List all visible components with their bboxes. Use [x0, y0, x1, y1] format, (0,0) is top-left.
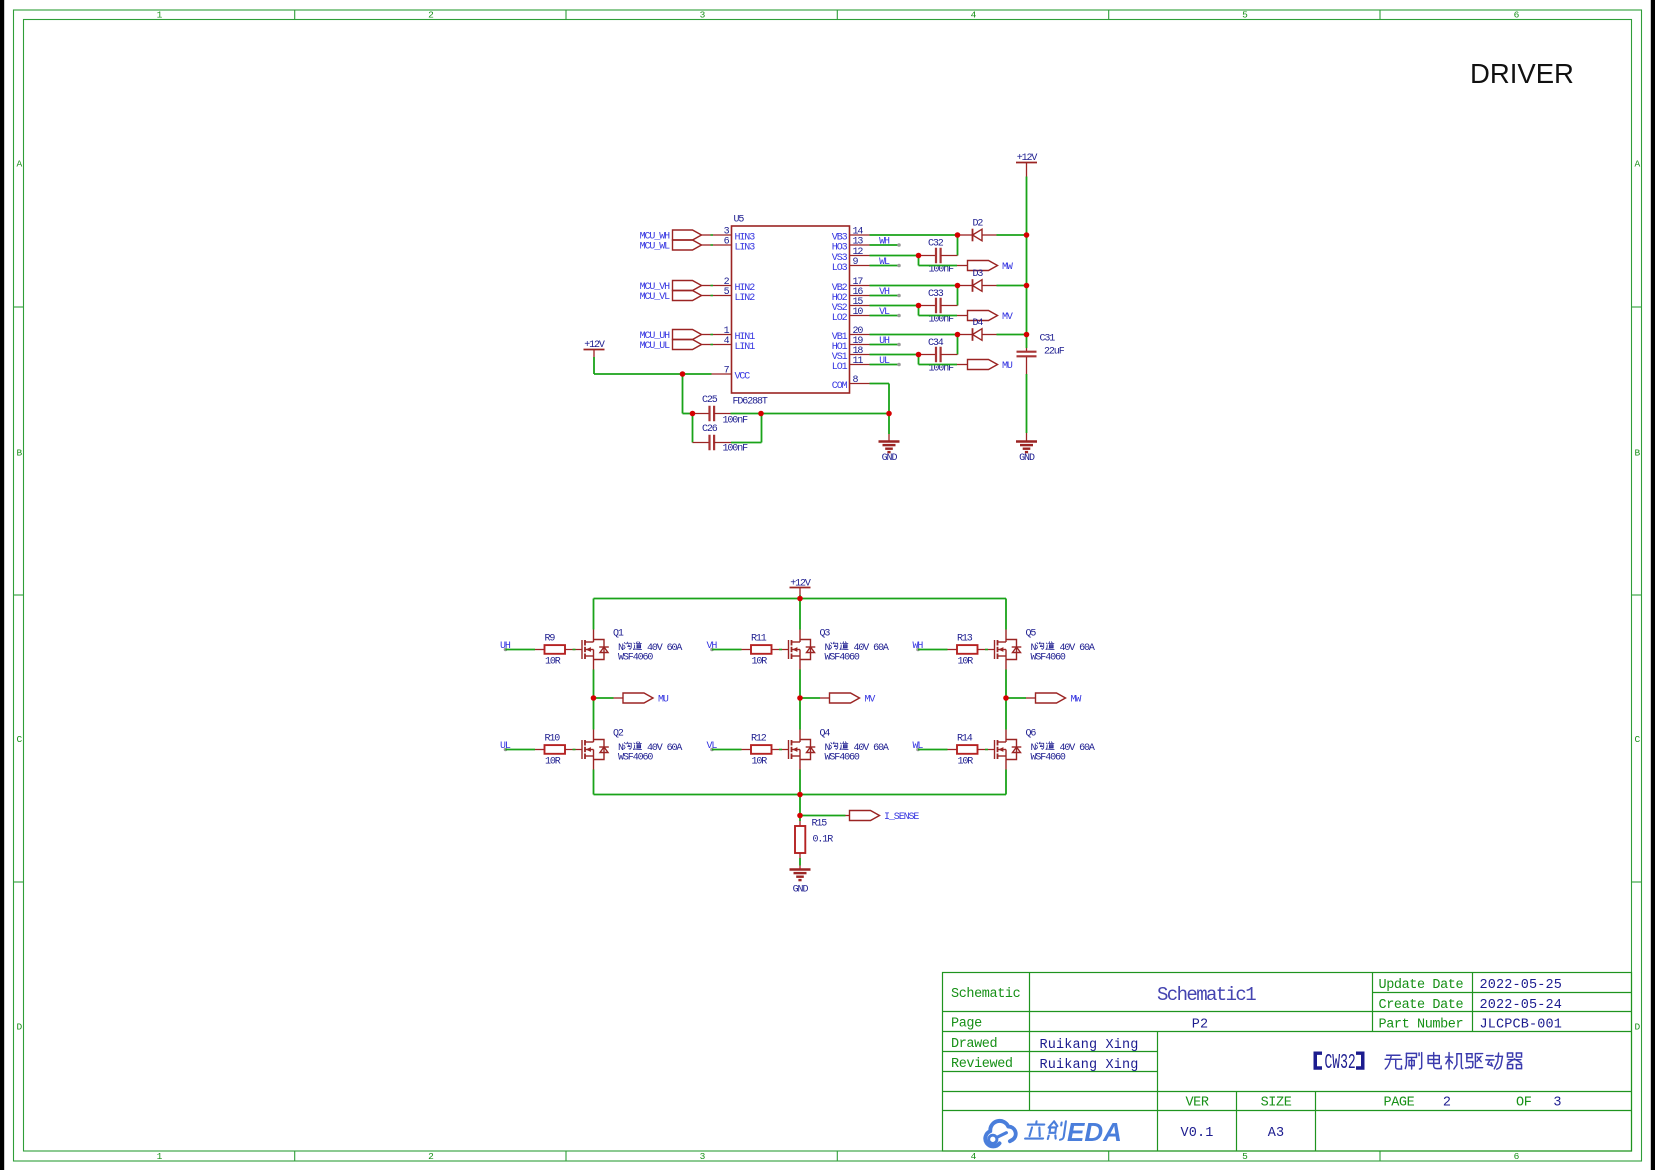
wire HO net UH — [870, 344, 900, 346]
output net flag MV — [957, 315, 968, 317]
svg-text:Drawed: Drawed — [951, 1037, 997, 1052]
wire to I_SENSE flag — [800, 815, 846, 817]
svg-text:Q4: Q4 — [820, 729, 831, 740]
wire bottom rail — [594, 794, 1007, 796]
wire top rail — [594, 598, 1007, 600]
svg-text:CW32: CW32 — [1325, 1051, 1356, 1075]
wire diode to +12V rail — [997, 234, 1027, 236]
svg-text:22uF: 22uF — [1044, 347, 1065, 358]
svg-text:R12: R12 — [751, 734, 767, 745]
wire COM down — [870, 383, 890, 385]
wire VS to output flag MU — [918, 355, 920, 365]
capacitor C31 22uF — [1026, 348, 1028, 351]
svg-text:WL: WL — [879, 257, 890, 268]
node junction dot — [758, 411, 764, 417]
wire Q1 source to mid node — [593, 670, 595, 699]
transistor Q6 WSF4060 — [995, 730, 1022, 770]
wire VS row to C33 — [870, 305, 919, 307]
svg-text:C26: C26 — [702, 424, 718, 435]
pin 5 LIN2 of U5 — [712, 295, 732, 297]
svg-text:10R: 10R — [958, 757, 974, 768]
wire UH to R9 — [506, 649, 536, 651]
pin 16 HO2 of U5 — [850, 295, 870, 297]
node junction dot — [1024, 283, 1030, 289]
pin 8 COM of U5 — [850, 383, 870, 385]
wire VB net row D2 — [870, 234, 958, 236]
svg-text:2: 2 — [1443, 1096, 1451, 1111]
wire Q6 source to bottom rail — [1005, 770, 1007, 795]
svg-text:LO1: LO1 — [832, 362, 848, 373]
capacitor C33 100nF — [919, 305, 937, 307]
wire UL to R10 — [506, 749, 536, 751]
svg-text:SIZE: SIZE — [1261, 1096, 1292, 1111]
svg-text:Create Date: Create Date — [1379, 998, 1464, 1013]
wire diode to +12V rail — [997, 285, 1027, 287]
input net flag MCU_VH — [673, 281, 702, 291]
pin 17 VB2 of U5 — [850, 285, 870, 287]
resistor R15 0.1R shunt — [799, 816, 801, 822]
logo LCEDA — [985, 1121, 1015, 1147]
node COM junction — [888, 414, 890, 435]
transistor Q5 WSF4060 — [995, 630, 1022, 670]
svg-text:P2: P2 — [1192, 1018, 1209, 1033]
node junction dot — [690, 411, 696, 417]
output net flag MU (phase) — [594, 697, 614, 699]
wire drain column Q1 — [593, 599, 595, 630]
svg-text:WH: WH — [879, 237, 890, 248]
svg-text:LIN1: LIN1 — [735, 342, 756, 353]
wire VH to R11 — [712, 649, 742, 651]
wire Q5 source to mid node — [1005, 670, 1007, 699]
pin 11 LO1 of U5 — [850, 364, 870, 366]
svg-text:JLCPCB-001: JLCPCB-001 — [1480, 1018, 1563, 1033]
node junction dot — [797, 596, 803, 602]
output net flag I_SENSE — [846, 815, 850, 817]
input net flag MCU_UL — [673, 340, 702, 350]
capacitor C25 100nF — [693, 413, 710, 415]
svg-text:FD6288T: FD6288T — [733, 397, 768, 408]
wire mid to Q2 drain — [593, 698, 595, 730]
svg-text:10R: 10R — [958, 657, 974, 668]
wire +12V to VCC — [593, 357, 595, 374]
wire R15 to ground — [799, 858, 801, 866]
wire LO net UL — [870, 364, 900, 366]
wire WL to R14 — [918, 749, 948, 751]
pin 1 HIN1 of U5 — [712, 334, 732, 336]
capacitor C34 100nF — [919, 354, 937, 356]
svg-text:MV: MV — [1002, 312, 1013, 323]
wire VB net row D4 — [870, 334, 958, 336]
wire WH to R13 — [918, 649, 948, 651]
svg-text:UL: UL — [879, 356, 890, 367]
pin 18 VS1 of U5 — [850, 354, 870, 356]
wire diode to +12V rail — [997, 334, 1027, 336]
svg-text:D3: D3 — [973, 269, 984, 280]
svg-text:Reviewed: Reviewed — [951, 1057, 1013, 1072]
svg-text:A3: A3 — [1268, 1126, 1285, 1141]
wire VL to R12 — [712, 749, 742, 751]
svg-text:10: 10 — [853, 307, 864, 318]
svg-text:MW: MW — [1071, 695, 1082, 706]
wire bottom rail to R15 — [799, 795, 801, 816]
resistor R12 10R — [742, 749, 752, 751]
svg-text:GND: GND — [882, 453, 898, 464]
input net flag MCU_VL — [673, 291, 702, 301]
node junction dot — [955, 332, 961, 338]
pin 2 HIN2 of U5 — [712, 285, 732, 287]
svg-text:R15: R15 — [812, 819, 828, 830]
input net flag MCU_UH — [673, 330, 702, 340]
svg-text:Update Date: Update Date — [1379, 978, 1464, 993]
resistor R14 10R — [948, 749, 958, 751]
svg-text:MW: MW — [1002, 262, 1013, 273]
node junction dot — [886, 411, 892, 417]
svg-text:0.1R: 0.1R — [813, 835, 834, 846]
svg-text:13: 13 — [853, 237, 864, 248]
svg-text:Q1: Q1 — [613, 629, 624, 640]
input net flag MCU_WL — [673, 240, 702, 250]
svg-text:C34: C34 — [928, 338, 944, 349]
svg-text:Q5: Q5 — [1026, 629, 1037, 640]
diode D2 — [958, 234, 973, 236]
op-amp U5 FD6288T gate driver IC body — [732, 226, 850, 393]
wire VS row to C34 — [870, 354, 919, 356]
svg-text:10R: 10R — [545, 657, 561, 668]
output net flag MV (phase) — [800, 697, 820, 699]
node junction dot — [797, 813, 803, 819]
wire Q2 source to bottom rail — [593, 770, 595, 795]
output net flag MU — [957, 364, 968, 366]
svg-text:LIN3: LIN3 — [735, 243, 756, 254]
capacitor C32 100nF — [919, 255, 937, 257]
svg-text:10R: 10R — [752, 657, 768, 668]
svg-text:UH: UH — [879, 336, 890, 347]
output net flag MW — [957, 265, 968, 267]
svg-text:11: 11 — [853, 356, 864, 367]
svg-text:Q3: Q3 — [820, 629, 831, 640]
node junction dot — [797, 792, 803, 798]
svg-text:WSF4060: WSF4060 — [618, 753, 653, 764]
svg-text:D4: D4 — [973, 318, 984, 329]
wire VCC to decoupling caps — [682, 374, 684, 414]
svg-text:MCU_VL: MCU_VL — [640, 292, 671, 303]
svg-text:DRIVER: DRIVER — [1470, 58, 1574, 89]
svg-text:3: 3 — [1553, 1096, 1561, 1111]
transistor Q4 WSF4060 — [789, 730, 816, 770]
svg-text:V0.1: V0.1 — [1180, 1126, 1213, 1141]
svg-text:PAGE: PAGE — [1384, 1096, 1415, 1111]
svg-text:C25: C25 — [702, 395, 718, 406]
svg-text:EDA: EDA — [1067, 1117, 1122, 1147]
capacitor C26 100nF — [692, 414, 694, 443]
wire C25 right — [731, 413, 762, 415]
title block — [943, 973, 1632, 1152]
svg-text:VER: VER — [1185, 1096, 1208, 1111]
svg-text:Schematic: Schematic — [951, 987, 1021, 1002]
svg-text:D2: D2 — [973, 219, 984, 230]
node junction dot — [916, 303, 922, 309]
svg-text:VH: VH — [879, 287, 890, 298]
svg-text:GND: GND — [793, 885, 809, 896]
node junction dot — [797, 695, 803, 701]
svg-text:R9: R9 — [545, 634, 556, 645]
node junction dot — [591, 695, 597, 701]
svg-text:MU: MU — [658, 695, 669, 706]
ground GND (COM) — [879, 442, 900, 453]
svg-text:WSF4060: WSF4060 — [825, 653, 860, 664]
svg-text:MU: MU — [1002, 361, 1013, 372]
svg-text:LO2: LO2 — [832, 313, 848, 324]
svg-text:2022-05-25: 2022-05-25 — [1480, 978, 1563, 993]
wire drain column Q5 — [1005, 599, 1007, 630]
svg-text:C33: C33 — [928, 289, 944, 300]
svg-text:2022-05-24: 2022-05-24 — [1480, 998, 1563, 1013]
svg-text:Ruikang Xing: Ruikang Xing — [1040, 1058, 1139, 1073]
ground GND (rail) — [1016, 442, 1037, 453]
svg-text:C31: C31 — [1040, 334, 1056, 345]
wire HO net VH — [870, 295, 900, 297]
svg-text:GND: GND — [1019, 453, 1035, 464]
diode D4 — [958, 334, 973, 336]
pin 12 VS3 of U5 — [850, 255, 870, 257]
resistor R13 10R — [948, 649, 958, 651]
wire HO net WH — [870, 244, 900, 246]
svg-text:10R: 10R — [545, 757, 561, 768]
svg-text:Schematic1: Schematic1 — [1157, 984, 1256, 1006]
svg-text:Q6: Q6 — [1026, 729, 1037, 740]
svg-text:U5: U5 — [734, 215, 745, 226]
wire LO net VL — [870, 315, 900, 317]
svg-text:COM: COM — [832, 381, 848, 392]
pin 15 VS2 of U5 — [850, 305, 870, 307]
svg-text:VL: VL — [879, 307, 890, 318]
wire Q4 source to bottom rail — [799, 770, 801, 795]
svg-text:OF: OF — [1516, 1096, 1532, 1111]
input net flag MCU_WH — [673, 230, 702, 240]
svg-text:Part Number: Part Number — [1379, 1018, 1464, 1033]
project title CW32 brushless motor driver — [1314, 1052, 1365, 1070]
wire LO net WL — [870, 265, 900, 267]
svg-text:MCU_WL: MCU_WL — [640, 242, 671, 253]
node junction dot — [916, 352, 922, 358]
wire mid to Q4 drain — [799, 698, 801, 730]
svg-text:WSF4060: WSF4060 — [825, 753, 860, 764]
node junction dot — [1024, 332, 1030, 338]
ground GND (shunt) — [790, 870, 811, 881]
wire bootstrap drop — [957, 286, 959, 306]
svg-text:HO3: HO3 — [832, 243, 848, 254]
svg-text:10R: 10R — [752, 757, 768, 768]
pin 7 VCC of U5 — [712, 373, 732, 375]
pin 9 LO3 of U5 — [850, 265, 870, 267]
wire VS to output flag MW — [918, 256, 920, 266]
node junction dot — [916, 253, 922, 259]
wire drain column Q3 — [799, 599, 801, 630]
svg-text:LIN2: LIN2 — [735, 293, 756, 304]
output net flag MW (phase) — [1006, 697, 1026, 699]
pin 20 VB1 of U5 — [850, 334, 870, 336]
svg-text:100nF: 100nF — [723, 416, 749, 427]
pin 3 HIN3 of U5 — [712, 234, 732, 236]
svg-text:Ruikang Xing: Ruikang Xing — [1040, 1038, 1139, 1053]
diode D3 — [958, 285, 973, 287]
wire Q3 source to mid node — [799, 670, 801, 699]
svg-text:MV: MV — [865, 695, 876, 706]
resistor R9 10R — [535, 649, 545, 651]
wire C31 to ground — [1026, 374, 1028, 433]
wire bootstrap drop — [957, 235, 959, 256]
pin 6 LIN3 of U5 — [712, 244, 732, 246]
transistor Q3 WSF4060 — [789, 630, 816, 670]
wire mid to Q6 drain — [1005, 698, 1007, 730]
svg-text:Page: Page — [951, 1017, 982, 1032]
node VCC junction — [683, 373, 712, 375]
svg-text:R14: R14 — [957, 734, 973, 745]
node junction dot — [1024, 232, 1030, 238]
svg-text:I_SENSE: I_SENSE — [884, 812, 919, 823]
pin 14 VB3 of U5 — [850, 234, 870, 236]
svg-text:R13: R13 — [957, 634, 973, 645]
svg-text:C32: C32 — [928, 239, 944, 250]
wire VS to output flag MV — [918, 306, 920, 316]
svg-text:R11: R11 — [751, 634, 767, 645]
svg-text:R10: R10 — [545, 734, 561, 745]
wire VS row to C32 — [870, 255, 919, 257]
node junction dot — [1003, 695, 1009, 701]
node junction dot — [955, 232, 961, 238]
node junction dot — [680, 371, 686, 377]
svg-text:LO3: LO3 — [832, 263, 848, 274]
svg-text:Q2: Q2 — [613, 729, 624, 740]
svg-text:WSF4060: WSF4060 — [1031, 653, 1066, 664]
resistor R11 10R — [742, 649, 752, 651]
svg-text:MCU_UL: MCU_UL — [640, 341, 671, 352]
wire decoupling rail to COM — [761, 413, 889, 415]
wire VB net row D3 — [870, 285, 958, 287]
transistor Q2 WSF4060 — [582, 730, 609, 770]
svg-text:WSF4060: WSF4060 — [1031, 753, 1066, 764]
transistor Q1 WSF4060 — [582, 630, 609, 670]
wire +12V rail vertical — [1026, 177, 1028, 349]
pin 13 HO3 of U5 — [850, 244, 870, 246]
pin 10 LO2 of U5 — [850, 315, 870, 317]
wire bootstrap drop — [957, 335, 959, 355]
resistor R10 10R — [535, 749, 545, 751]
svg-text:WSF4060: WSF4060 — [618, 653, 653, 664]
wire C26 right — [731, 442, 762, 444]
pin 19 HO1 of U5 — [850, 344, 870, 346]
pin 4 LIN1 of U5 — [712, 344, 732, 346]
svg-text:VCC: VCC — [735, 372, 751, 383]
svg-text:100nF: 100nF — [723, 444, 749, 455]
node junction dot — [955, 283, 961, 289]
